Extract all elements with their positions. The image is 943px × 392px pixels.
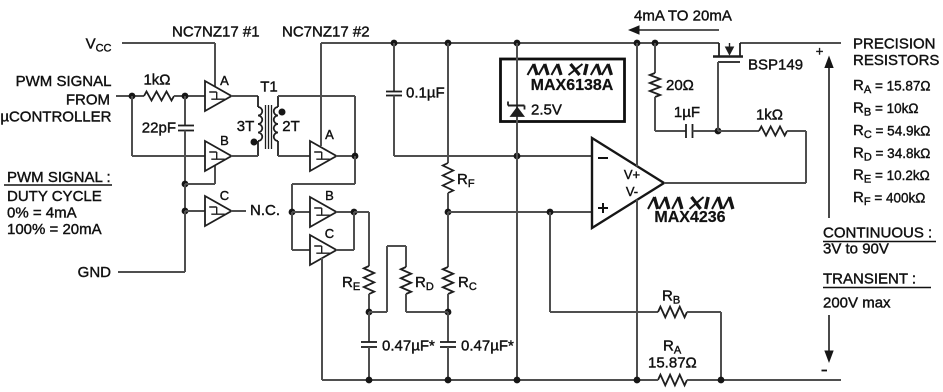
wire RF to plus node bbox=[447, 193, 449, 212]
wire plus node to op-amp noninverting input bbox=[448, 211, 592, 213]
node RC bottom junction bbox=[445, 309, 452, 316]
logo MAXIM reference bbox=[528, 64, 612, 75]
arrow voltage range up bbox=[824, 56, 833, 219]
transformer core bbox=[266, 105, 272, 149]
node rail dot RE bbox=[366, 377, 373, 384]
node rail dot RC bbox=[445, 377, 452, 384]
diode zener 2.5V bbox=[508, 102, 525, 117]
node C input junction bbox=[182, 208, 189, 215]
resistor RB bbox=[658, 307, 687, 318]
svg-text:1µF: 1µF bbox=[674, 104, 700, 121]
svg-text:1kΩ: 1kΩ bbox=[143, 72, 170, 89]
svg-text:3V to 90V: 3V to 90V bbox=[823, 241, 889, 258]
capacitor 0.47uF second bbox=[440, 342, 456, 347]
buffer U1B NC7NZ17 #1 B bbox=[205, 133, 232, 171]
wire B2 input to C2 input bbox=[292, 212, 310, 250]
arrow loop current bbox=[628, 25, 719, 34]
svg-text:T1: T1 bbox=[260, 79, 278, 96]
label precision resistor values bbox=[853, 77, 930, 208]
label 4mA TO 20mA bbox=[634, 8, 732, 25]
node gate junction bbox=[715, 128, 722, 135]
wire junction down to 22pF bbox=[184, 96, 186, 126]
svg-text:C: C bbox=[325, 226, 334, 241]
wire 1k to buffer A input bbox=[174, 95, 205, 97]
resistor 1k input bbox=[144, 92, 174, 101]
buffer U2B NC7NZ17 #2 B bbox=[310, 188, 337, 227]
wire V+ supply bbox=[636, 43, 638, 167]
node RE bottom junction bbox=[366, 309, 373, 316]
label PWM SIGNAL : duty cycle note bbox=[4, 169, 112, 238]
label 1k feedback bbox=[756, 107, 783, 124]
svg-text:µCONTROLLER: µCONTROLLER bbox=[0, 109, 111, 126]
resistor RC bbox=[443, 267, 453, 294]
svg-text:GND: GND bbox=[78, 264, 112, 281]
label NC7NZ17 #2 bbox=[282, 24, 370, 41]
wire B2 input bbox=[292, 211, 310, 213]
svg-text:V-: V- bbox=[626, 184, 638, 199]
pin V+ label bbox=[624, 167, 640, 182]
wire RE junction to 0.47uF cap1 bbox=[368, 312, 370, 342]
wire 0.1uF bottom to op-amp inverting input bbox=[394, 96, 592, 157]
svg-text:CONTINUOUS :: CONTINUOUS : bbox=[823, 225, 932, 242]
svg-text:TRANSIENT :: TRANSIENT : bbox=[823, 271, 916, 288]
svg-text:+: + bbox=[816, 44, 824, 59]
svg-text:MAX4236: MAX4236 bbox=[654, 209, 725, 226]
resistor RA bbox=[658, 375, 687, 386]
svg-text:A: A bbox=[220, 73, 229, 88]
label plus terminal bbox=[816, 44, 824, 59]
transformer T1 primary winding 3T bbox=[258, 96, 262, 156]
capacitor 1uF bbox=[686, 124, 693, 138]
wire RD bottom to RC junction bbox=[406, 294, 448, 312]
node VCC label bbox=[86, 36, 112, 55]
wire secondary bottom to buffer A2 input bbox=[278, 155, 310, 157]
node rail dot ref bbox=[514, 377, 521, 384]
buffer U1A NC7NZ17 #1 A bbox=[205, 73, 232, 111]
svg-text:PWM SIGNAL :: PWM SIGNAL : bbox=[7, 169, 111, 186]
label GND bbox=[78, 264, 112, 281]
node rail dot V- bbox=[634, 377, 641, 384]
svg-text:BSP149: BSP149 bbox=[748, 57, 803, 74]
svg-text:B: B bbox=[325, 188, 334, 203]
label 1uF bbox=[674, 104, 700, 121]
wire RE bottom bbox=[368, 294, 370, 312]
wire A2 output bbox=[336, 155, 355, 157]
svg-text:PRECISION: PRECISION bbox=[853, 36, 936, 53]
wire RC bottom bbox=[447, 294, 449, 312]
wire C2 output up to junction bbox=[336, 212, 354, 250]
node rail junction V+ bbox=[634, 40, 641, 47]
label TRANSIENT range bbox=[823, 271, 931, 312]
wire B2 output bbox=[336, 211, 354, 213]
op-amp U4 MAX4236 triangle bbox=[592, 138, 664, 228]
wire 20ohm top bbox=[654, 43, 656, 73]
wire 22pF to lower junction bbox=[184, 131, 186, 185]
node rail dot RA bbox=[718, 377, 725, 384]
svg-text:200V max: 200V max bbox=[823, 295, 891, 312]
svg-text:A: A bbox=[325, 127, 334, 142]
capacitor 0.1uF bbox=[386, 92, 402, 96]
label RB bbox=[662, 288, 680, 307]
wire RB to RA node bbox=[687, 312, 721, 380]
svg-text:3T: 3T bbox=[237, 118, 255, 135]
label MAX4236 bbox=[654, 209, 725, 226]
label 1kOhm input resistor bbox=[143, 72, 170, 89]
svg-text:2T: 2T bbox=[282, 118, 300, 135]
wire buffer C output to N.C. bbox=[231, 210, 246, 212]
node B2/C2 output junction bbox=[351, 209, 358, 216]
label NC7NZ17 #1 bbox=[172, 24, 260, 41]
wire gate node to 1k bbox=[718, 130, 759, 132]
node PWM input junction bbox=[129, 93, 136, 100]
wire 20ohm to 1uF bbox=[655, 97, 686, 131]
svg-text:20Ω: 20Ω bbox=[666, 77, 694, 94]
node rail junction 20ohm bbox=[652, 40, 659, 47]
label PWM SIGNAL FROM uCONTROLLER bbox=[0, 73, 111, 126]
node RB tap junction bbox=[547, 209, 554, 216]
label 2.5V bbox=[531, 102, 562, 119]
svg-text:2.5V: 2.5V bbox=[531, 102, 562, 119]
label RF bbox=[457, 171, 475, 190]
label MAX6138A bbox=[531, 77, 614, 94]
label N.C. bbox=[250, 202, 280, 219]
label RC bbox=[458, 274, 477, 293]
wire NC7NZ17 #2 supply bbox=[320, 43, 322, 146]
wire C input bbox=[185, 210, 205, 212]
label 0.47uF first bbox=[382, 338, 435, 355]
node B2 input junction bbox=[289, 209, 296, 216]
wire junction to C input junction bbox=[184, 184, 186, 211]
wire 1k to op-amp output bbox=[664, 131, 806, 183]
wire B2 out to RE bbox=[354, 212, 369, 266]
node A2 output junction bbox=[352, 153, 359, 160]
wire primary bottom to buffer B out bbox=[231, 155, 258, 157]
resistor RE bbox=[364, 266, 374, 294]
node RF/RC plus input junction bbox=[445, 209, 452, 216]
label RD bbox=[415, 274, 434, 293]
wire cap2 to bottom rail bbox=[447, 347, 449, 380]
pin V- label bbox=[626, 184, 638, 199]
wire buffer A out to primary top bbox=[231, 95, 258, 97]
node rail junction 0.1uF bbox=[391, 40, 398, 47]
svg-text:NC7NZ17 #1: NC7NZ17 #1 bbox=[172, 24, 260, 41]
label T1 bbox=[260, 79, 278, 96]
svg-text:0.1µF: 0.1µF bbox=[406, 85, 445, 102]
svg-text:N.C.: N.C. bbox=[250, 202, 280, 219]
resistor 20 ohm bbox=[650, 73, 660, 97]
wire reference vertical bbox=[516, 43, 518, 380]
wire GND lead bbox=[118, 271, 185, 273]
label 15.87 bbox=[648, 355, 697, 372]
svg-text:1kΩ: 1kΩ bbox=[756, 107, 783, 124]
label 20 ohm bbox=[666, 77, 694, 94]
logo MAXIM op-amp bbox=[648, 197, 733, 209]
label op-amp minus bbox=[598, 157, 608, 159]
svg-text:RESISTORS: RESISTORS bbox=[853, 52, 939, 69]
label 3T bbox=[237, 118, 255, 135]
svg-text:15.87Ω: 15.87Ω bbox=[648, 355, 697, 372]
svg-text:RB = 10kΩ: RB = 10kΩ bbox=[853, 100, 918, 119]
wire PWM node down to buffer B input bbox=[132, 96, 205, 156]
svg-text:PWM SIGNAL: PWM SIGNAL bbox=[16, 73, 112, 90]
IC U3 MAX6138A box bbox=[501, 59, 625, 122]
svg-text:0.47µF*: 0.47µF* bbox=[382, 338, 435, 355]
node A input junction bbox=[182, 93, 189, 100]
label RA bbox=[663, 338, 682, 357]
wire cap1 to bottom rail bbox=[368, 347, 370, 380]
label 0.47uF second bbox=[461, 338, 514, 355]
node rail junction ref bbox=[514, 40, 521, 47]
svg-text:FROM: FROM bbox=[66, 92, 110, 109]
svg-text:0% = 4mA: 0% = 4mA bbox=[7, 205, 77, 222]
wire rail to RF bbox=[447, 43, 449, 163]
node secondary phase dot bbox=[279, 109, 286, 116]
label BSP149 bbox=[748, 57, 803, 74]
svg-text:NC7NZ17 #2: NC7NZ17 #2 bbox=[282, 24, 370, 41]
wire bottom rail bbox=[322, 379, 841, 381]
wire A2 out down to B/C inputs bbox=[292, 156, 355, 212]
label op-amp plus bbox=[598, 203, 608, 213]
wire plus node down to RC bbox=[447, 212, 449, 267]
wire VCC to NC7NZ17 #1 supply bbox=[122, 43, 215, 87]
resistor RF bbox=[443, 163, 453, 193]
label 22pF bbox=[142, 120, 176, 137]
svg-text:MAX6138A: MAX6138A bbox=[531, 77, 614, 94]
wire B ground tap bbox=[185, 165, 215, 184]
node primary phase dot bbox=[251, 139, 258, 146]
wire isolated supply rail bbox=[321, 42, 841, 44]
svg-text:100% = 20mA: 100% = 20mA bbox=[7, 221, 102, 238]
node buffer B ground tie bbox=[182, 181, 189, 188]
capacitor 22pF bbox=[178, 126, 194, 131]
transformer T1 secondary winding 2T bbox=[274, 96, 278, 156]
wire PWM input bbox=[116, 95, 144, 97]
arrow voltage range down bbox=[824, 315, 833, 363]
svg-text:22pF: 22pF bbox=[142, 120, 176, 137]
node reference to inverting input junction bbox=[514, 153, 521, 160]
node rail junction RF bbox=[445, 40, 452, 47]
buffer U2C NC7NZ17 #2 C bbox=[310, 226, 337, 265]
label 0.1uF bbox=[406, 85, 445, 102]
wire 1uF to gate node bbox=[693, 130, 719, 132]
wire secondary top to A2 output node bbox=[278, 96, 355, 156]
transistor Q1 BSP149 bbox=[713, 43, 743, 131]
capacitor 0.47uF first bbox=[361, 342, 377, 347]
wire 0.1uF top lead bbox=[393, 43, 395, 92]
svg-text:DUTY CYCLE: DUTY CYCLE bbox=[7, 188, 102, 205]
label 2T bbox=[282, 118, 300, 135]
buffer U2A NC7NZ17 #2 A bbox=[310, 127, 337, 171]
wire RC junction to 0.47uF cap2 bbox=[447, 312, 449, 342]
resistor RD bbox=[401, 267, 411, 294]
svg-text:B: B bbox=[220, 133, 229, 148]
label minus terminal bbox=[822, 370, 828, 372]
label PRECISION RESISTORS bbox=[853, 36, 939, 70]
svg-text:0.47µF*: 0.47µF* bbox=[461, 338, 514, 355]
wire junction to GND corner bbox=[184, 211, 186, 272]
label RE bbox=[342, 274, 360, 293]
svg-text:V+: V+ bbox=[624, 167, 640, 182]
wire V- to bottom rail bbox=[636, 200, 638, 381]
svg-text:C: C bbox=[220, 188, 229, 203]
label CONTINUOUS range bbox=[823, 225, 936, 258]
resistor 1k gate bbox=[759, 127, 787, 136]
buffer U1C NC7NZ17 #1 C bbox=[205, 188, 232, 226]
wire RE junction over to RD top bbox=[369, 246, 406, 312]
svg-text:4mA TO 20mA: 4mA TO 20mA bbox=[634, 8, 732, 25]
wire C2 ground to bottom rail bbox=[321, 258, 323, 380]
wire RB tap down bbox=[550, 212, 658, 312]
